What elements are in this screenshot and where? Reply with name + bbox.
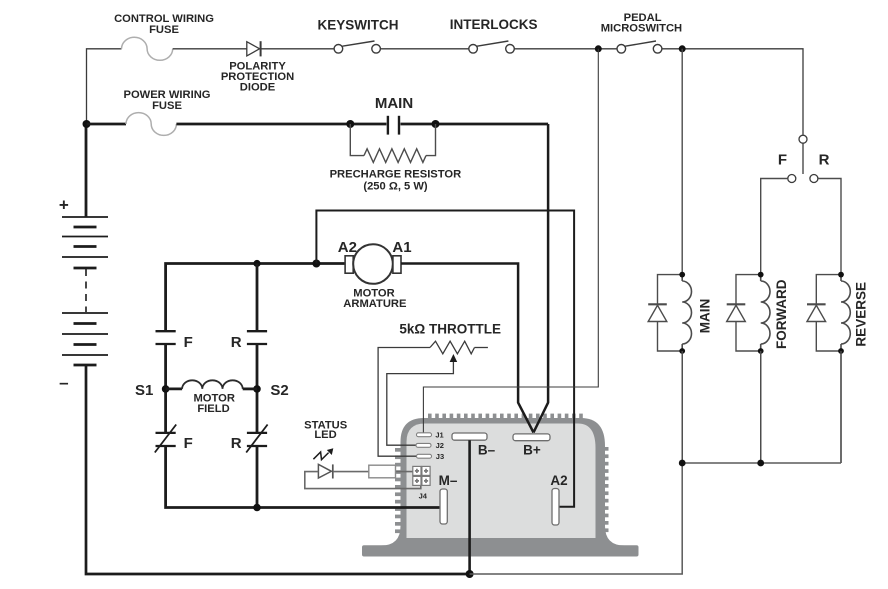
svg-text:R: R <box>231 334 242 351</box>
LED connector housing <box>369 465 396 478</box>
svg-text:DIODE: DIODE <box>240 82 276 94</box>
wire: LED anode loop to J4 <box>305 472 421 489</box>
R contact <box>810 175 818 183</box>
svg-text:M–: M– <box>439 473 458 488</box>
wire: MAIN coil bottom to bus <box>681 351 683 463</box>
motor armature circle <box>353 244 393 284</box>
svg-text:F: F <box>184 435 193 452</box>
controller heatsink top fins <box>428 414 583 420</box>
MAIN contactor coil <box>682 275 691 351</box>
svg-text:J2: J2 <box>436 441 444 450</box>
wire: LED cathode to J4 <box>333 471 413 473</box>
wire: MAIN contact to B+ drop <box>401 123 549 126</box>
svg-text:S2: S2 <box>270 382 288 399</box>
connector J4 <box>413 466 430 485</box>
interlocks switch <box>469 45 478 54</box>
svg-text:PRECHARGE RESISTOR: PRECHARGE RESISTOR <box>330 169 462 181</box>
contact R (normally closed, slashed) <box>247 433 267 446</box>
contact F (normally closed, slashed) <box>156 433 176 446</box>
svg-text:F: F <box>778 151 787 168</box>
power wiring fuse <box>126 113 176 136</box>
wire: REVERSE coil bottom to bus <box>840 351 842 463</box>
wire: FORWARD coil bottom to bus <box>760 351 762 463</box>
controller interior panel <box>407 424 596 539</box>
motor armature terminal A1 box <box>393 256 401 273</box>
svg-text:5kΩ THROTTLE: 5kΩ THROTTLE <box>399 321 501 336</box>
svg-text:J1: J1 <box>435 431 443 440</box>
FORWARD contactor coil <box>761 275 770 351</box>
terminal slot J1 <box>417 433 432 437</box>
throttle right lead (unused) <box>475 347 488 349</box>
control wiring fuse <box>122 37 173 60</box>
wire: coil supply junction down to MAIN coil <box>681 49 683 275</box>
node S1 <box>162 385 170 393</box>
junction dots FORWARD coil <box>758 272 764 278</box>
status LED diode <box>318 464 331 478</box>
node: bus junction MAIN <box>679 460 686 467</box>
svg-text:FUSE: FUSE <box>152 100 182 112</box>
svg-text:FORWARD: FORWARD <box>774 279 789 349</box>
wire: controller A2 to armature A2 node <box>316 211 574 507</box>
svg-text:FUSE: FUSE <box>149 24 179 36</box>
wire: A1 to B+ (V left arm) <box>401 264 534 433</box>
svg-text:INTERLOCKS: INTERLOCKS <box>450 17 538 32</box>
wire: diode to keyswitch <box>261 48 335 50</box>
node: coil supply junction <box>679 45 686 52</box>
svg-text:(250 Ω, 5 W): (250 Ω, 5 W) <box>363 180 428 192</box>
svg-text:MAIN: MAIN <box>698 299 713 334</box>
wire: KSI junction to J1 <box>423 49 598 433</box>
wire: B- to bottom bus <box>468 440 471 574</box>
wire: interlocks to pedal microswitch <box>514 48 617 50</box>
svg-text:F: F <box>184 334 193 351</box>
node: S2 branch top <box>253 260 260 267</box>
svg-text:–: – <box>59 373 68 392</box>
svg-text:A2: A2 <box>338 239 357 256</box>
svg-text:A2: A2 <box>550 473 567 488</box>
svg-text:REVERSE: REVERSE <box>854 282 869 347</box>
battery plates bottom group <box>62 313 108 365</box>
wire: MAIN to B+ (V right arm) <box>534 124 549 433</box>
terminal slot M- <box>440 489 447 524</box>
terminal slot J3 <box>417 454 432 458</box>
node: armature A2 / controller A2 junction <box>312 260 320 268</box>
svg-text:MICROSWITCH: MICROSWITCH <box>601 23 682 35</box>
node: field bottom junction <box>253 504 261 512</box>
svg-text:B–: B– <box>478 442 496 457</box>
controller right mounting foot <box>605 526 625 546</box>
terminal slot B- <box>452 433 487 440</box>
node: KSI branch junction <box>595 45 602 52</box>
node: precharge left <box>346 120 354 128</box>
wire: battery + to power row <box>85 124 88 217</box>
svg-text:FIELD: FIELD <box>197 403 229 415</box>
polarity protection diode <box>247 42 260 56</box>
precharge resistor loop <box>350 124 364 156</box>
node: bus junction FORWARD <box>757 460 764 467</box>
wire: R contact to REVERSE coil <box>818 179 841 275</box>
junction dots REVERSE coil <box>838 272 844 278</box>
svg-text:ARMATURE: ARMATURE <box>343 298 407 310</box>
wire: keyswitch to interlocks <box>380 48 468 50</box>
terminal slot A2 <box>552 489 559 526</box>
svg-text:J3: J3 <box>436 452 444 461</box>
wire: R branch top <box>256 264 259 332</box>
controller heatsink right fins <box>604 447 609 532</box>
wire: pedal microswitch to F/R switch <box>662 49 803 135</box>
terminal slot B+ <box>513 434 550 441</box>
svg-text:KEYSWITCH: KEYSWITCH <box>318 18 399 33</box>
wire: R contact to S2 <box>256 344 259 433</box>
svg-text:MAIN: MAIN <box>375 95 413 112</box>
keyswitch <box>334 45 343 54</box>
wire: battery - down to bottom bus <box>86 365 470 574</box>
F/R switch common pole <box>799 135 807 143</box>
node: precharge right <box>432 120 440 128</box>
wire: throttle low end to J3 <box>378 348 430 457</box>
controller base plate <box>362 545 639 556</box>
wire: junction to power fuse <box>87 123 127 126</box>
svg-text:+: + <box>59 196 69 215</box>
junction dots MAIN coil <box>679 272 685 278</box>
svg-text:B+: B+ <box>523 442 541 457</box>
terminal slot J2 <box>416 443 431 447</box>
controller body outline (dark band) <box>401 418 606 546</box>
wire: control fuse to polarity diode <box>173 48 247 50</box>
wire: power fuse to MAIN contact <box>176 123 386 126</box>
svg-text:J4: J4 <box>419 491 428 500</box>
pedal microswitch <box>617 45 626 54</box>
node S2 <box>253 385 261 393</box>
controller heatsink left fins <box>395 448 401 533</box>
REVERSE coil suppression diode <box>807 275 841 351</box>
battery mid dashed section <box>85 269 87 312</box>
MAIN coil suppression diode <box>648 275 682 351</box>
wire: power-row junction up to control row <box>87 49 122 124</box>
wire: field tops / armature A2 row <box>166 264 346 332</box>
node: B- battery junction <box>466 570 474 578</box>
REVERSE contactor coil <box>841 275 850 351</box>
F contact <box>788 175 796 183</box>
wire: field bottoms to M- <box>166 446 440 508</box>
contact F (normally open) <box>156 331 176 344</box>
svg-text:LED: LED <box>314 429 336 441</box>
motor armature terminal A2 box <box>345 256 353 273</box>
wire: coil return bus <box>682 351 841 463</box>
svg-text:R: R <box>819 151 830 168</box>
motor field inductor <box>166 387 183 390</box>
LED emission zigzag arrow <box>313 452 328 460</box>
battery plates top group <box>62 217 108 268</box>
svg-text:A1: A1 <box>392 239 411 256</box>
throttle potentiometer zigzag <box>430 341 475 354</box>
throttle wiper arrow to J2 <box>387 360 454 445</box>
node: battery + power junction <box>83 120 91 128</box>
svg-text:R: R <box>231 435 242 452</box>
controller left mounting foot <box>381 526 401 546</box>
MAIN contactor tip contacts <box>387 116 389 135</box>
contact R (normally open) <box>247 331 267 344</box>
svg-text:S1: S1 <box>135 382 153 399</box>
wire: F contact to S1 <box>164 344 167 433</box>
wire: F contact to FORWARD coil <box>761 179 788 275</box>
FORWARD coil suppression diode <box>727 275 761 351</box>
